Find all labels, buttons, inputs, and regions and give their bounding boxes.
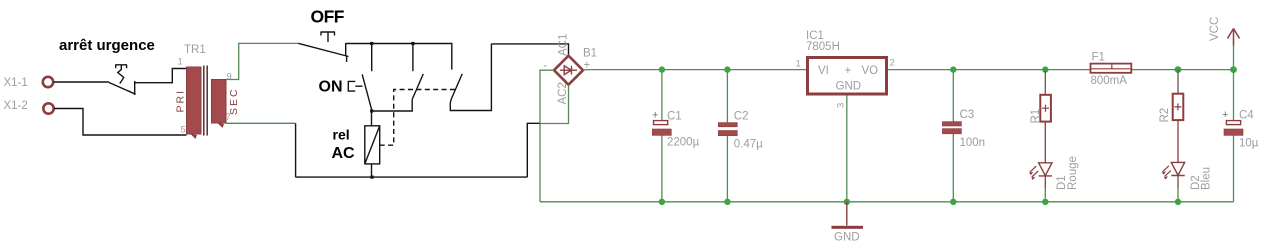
junction — [370, 176, 373, 179]
junction — [1230, 66, 1237, 73]
transformer TR1 core — [204, 66, 207, 136]
LED D2 — [1162, 162, 1185, 179]
svg-text:2200µ: 2200µ — [667, 137, 700, 149]
svg-text:9: 9 — [227, 72, 232, 83]
svg-text:2: 2 — [890, 58, 895, 69]
wire IC1 GND pin to ground rail — [846, 96, 848, 202]
svg-text:Rouge: Rouge — [1067, 156, 1079, 190]
fuse F1 — [1091, 64, 1132, 73]
junction — [724, 66, 730, 72]
resistor R1 — [1040, 70, 1051, 122]
svg-text:GND: GND — [836, 81, 862, 93]
DC plus rail right of IC1 — [888, 69, 1091, 71]
contact stub 1 — [371, 44, 373, 72]
junction — [1042, 199, 1048, 205]
capacitor C2 — [718, 70, 737, 202]
svg-text:GND: GND — [834, 232, 860, 244]
svg-text:TR1: TR1 — [184, 44, 206, 56]
svg-text:C4: C4 — [1239, 110, 1254, 122]
junction — [659, 66, 665, 72]
pin arrow 7 — [218, 123, 225, 128]
svg-text:+: + — [1222, 109, 1228, 121]
LED D1 — [1029, 163, 1052, 180]
ground rail — [540, 201, 1232, 203]
svg-text:X1-2: X1-2 — [4, 100, 28, 112]
wire X1-1 to switch — [54, 81, 110, 83]
junction — [659, 199, 665, 205]
svg-text:VI: VI — [818, 65, 829, 77]
svg-text:C2: C2 — [734, 111, 749, 123]
junction — [411, 42, 414, 45]
junction — [950, 66, 956, 72]
contact stub 2 — [412, 44, 414, 72]
svg-text:AC2: AC2 — [557, 82, 569, 104]
capacitor C1 — [652, 70, 671, 202]
wire blade1 to blade2 — [372, 99, 412, 111]
svg-text:3: 3 — [836, 103, 847, 108]
svg-text:800mA: 800mA — [1091, 75, 1128, 87]
svg-text:7805H: 7805H — [806, 41, 840, 53]
DC plus rail — [583, 69, 806, 71]
emergency stop switch S1 — [109, 65, 136, 95]
wire relay to bottom rail — [371, 164, 373, 177]
mechanical link (dashed) — [380, 90, 456, 146]
junction — [370, 109, 373, 112]
wire R2 to D2 — [1177, 120, 1179, 162]
svg-text:Bleu: Bleu — [1200, 167, 1212, 190]
junction — [950, 199, 956, 205]
svg-text:X1-1: X1-1 — [4, 77, 28, 89]
junction — [1175, 66, 1182, 73]
supply symbol VCC — [1228, 29, 1240, 46]
capacitor C4 — [1224, 70, 1243, 202]
transformer TR1 primary winding — [187, 67, 202, 134]
switch blade 3 — [451, 74, 462, 100]
wire TR1 pin9 to OFF switch — [226, 43, 298, 79]
switch blade 1 — [362, 74, 372, 110]
wire VCC to rail — [1233, 46, 1235, 70]
switch ON actuator — [348, 81, 362, 91]
svg-text:SEC: SEC — [228, 87, 240, 115]
junction — [1042, 66, 1048, 72]
svg-text:VO: VO — [862, 65, 879, 77]
svg-text:+: + — [845, 65, 852, 77]
resistor R2 — [1173, 70, 1184, 121]
DC plus rail after fuse — [1131, 69, 1233, 71]
svg-text:5: 5 — [181, 125, 186, 136]
svg-text:100n: 100n — [960, 137, 986, 149]
wire OFF to contacts top rail — [346, 44, 452, 70]
svg-text:ON: ON — [319, 79, 343, 96]
wire blade3 to riser — [450, 44, 491, 111]
wire bridge minus down — [540, 70, 554, 202]
relay coil K1 — [365, 126, 380, 164]
svg-text:arrêt urgence: arrêt urgence — [59, 37, 155, 54]
wire switch to TR1 pin1 — [135, 69, 187, 83]
svg-text:0.47µ: 0.47µ — [734, 139, 763, 151]
wire D1 to ground rail — [1044, 176, 1046, 188]
svg-text:C3: C3 — [960, 109, 975, 121]
switch OFF — [298, 32, 348, 62]
svg-text:B1: B1 — [583, 48, 597, 60]
transformer TR1 secondary winding — [212, 80, 227, 124]
junction — [1175, 199, 1181, 205]
svg-text:AC: AC — [332, 145, 356, 162]
junction — [724, 199, 730, 205]
svg-text:R1: R1 — [1030, 109, 1042, 124]
wire TR1 pin7 — [226, 122, 296, 124]
svg-text:R2: R2 — [1159, 108, 1171, 123]
junction — [370, 42, 373, 45]
svg-text:OFF: OFF — [311, 7, 345, 27]
wire riser to bridge AC1 — [491, 44, 568, 56]
svg-text:F1: F1 — [1092, 52, 1105, 64]
terminal X1-1 — [43, 77, 53, 87]
wire bottom rail to bridge AC2 — [527, 123, 540, 177]
regulator IC1 7805 — [808, 58, 887, 95]
svg-text:1: 1 — [178, 57, 183, 68]
svg-text:VCC: VCC — [1209, 17, 1221, 41]
wire R1 to D1 — [1044, 122, 1046, 163]
svg-text:10µ: 10µ — [1239, 138, 1259, 150]
pin arrow 5 — [191, 134, 198, 139]
wire contacts to relay — [371, 111, 373, 126]
wire down to relay common rail — [295, 123, 297, 177]
switch blade 2 — [412, 74, 423, 100]
wire bridge AC2 — [541, 85, 569, 124]
svg-text:+: + — [652, 110, 658, 122]
bridge rectifier B1 — [554, 56, 583, 85]
capacitor C3 — [942, 70, 961, 202]
svg-text:rel: rel — [333, 127, 350, 143]
relay common bottom rail — [295, 176, 527, 178]
terminal X1-2 — [43, 103, 53, 113]
ground symbol — [846, 202, 848, 226]
svg-text:C1: C1 — [667, 111, 682, 123]
svg-text:PRI: PRI — [175, 89, 187, 113]
svg-text:AC1: AC1 — [558, 34, 570, 56]
junction — [844, 199, 850, 205]
wire D2 to ground rail — [1177, 176, 1179, 189]
wire X1-2 to TR1 pin5 — [54, 109, 187, 136]
svg-text:1: 1 — [796, 59, 801, 70]
